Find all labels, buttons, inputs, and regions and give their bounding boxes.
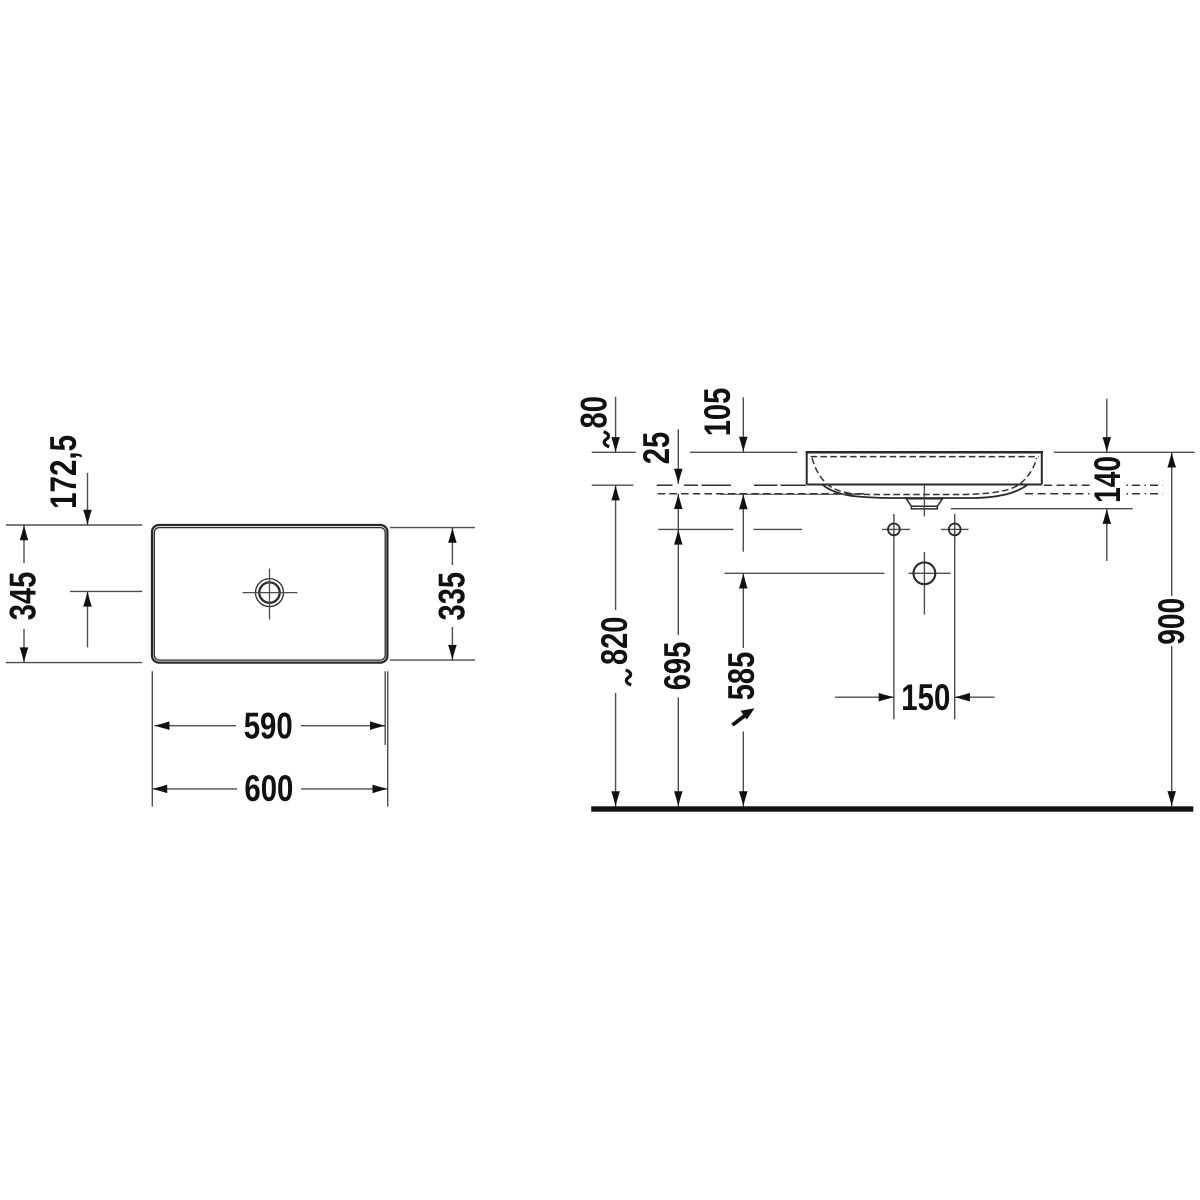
svg-text:150: 150: [901, 677, 950, 718]
svg-text:80: 80: [573, 396, 614, 429]
svg-text:820: 820: [594, 617, 635, 666]
svg-text:25: 25: [636, 432, 677, 465]
svg-text:695: 695: [657, 642, 698, 691]
svg-text:585: 585: [721, 652, 762, 701]
svg-text:172,5: 172,5: [43, 435, 84, 509]
svg-text:345: 345: [3, 572, 44, 621]
svg-text:105: 105: [697, 388, 738, 437]
svg-text:590: 590: [244, 705, 293, 746]
svg-text:600: 600: [244, 768, 293, 809]
svg-text:335: 335: [432, 572, 473, 621]
svg-text:140: 140: [1087, 456, 1128, 503]
svg-text:900: 900: [1151, 598, 1192, 645]
